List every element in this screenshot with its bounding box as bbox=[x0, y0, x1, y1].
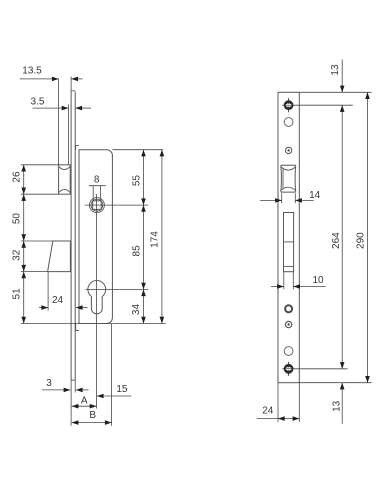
svg-text:14: 14 bbox=[309, 190, 321, 201]
svg-text:B: B bbox=[89, 410, 96, 421]
svg-text:85: 85 bbox=[132, 245, 143, 257]
svg-text:8: 8 bbox=[94, 175, 100, 186]
svg-text:10: 10 bbox=[312, 275, 324, 286]
svg-text:24: 24 bbox=[262, 406, 274, 417]
svg-text:A: A bbox=[81, 396, 88, 407]
svg-text:174: 174 bbox=[150, 231, 161, 248]
svg-text:290: 290 bbox=[356, 232, 367, 249]
svg-text:55: 55 bbox=[132, 175, 143, 187]
svg-text:26: 26 bbox=[11, 171, 22, 183]
svg-text:51: 51 bbox=[11, 288, 22, 300]
svg-text:3.5: 3.5 bbox=[31, 96, 45, 107]
svg-text:13.5: 13.5 bbox=[22, 66, 42, 77]
svg-text:264: 264 bbox=[331, 232, 342, 249]
svg-text:15: 15 bbox=[116, 384, 128, 395]
svg-text:50: 50 bbox=[11, 213, 22, 225]
svg-text:32: 32 bbox=[11, 249, 22, 261]
svg-text:24: 24 bbox=[52, 295, 64, 306]
svg-text:13: 13 bbox=[330, 64, 341, 76]
svg-text:3: 3 bbox=[46, 378, 52, 389]
svg-text:34: 34 bbox=[131, 304, 142, 316]
svg-text:13: 13 bbox=[332, 400, 343, 412]
